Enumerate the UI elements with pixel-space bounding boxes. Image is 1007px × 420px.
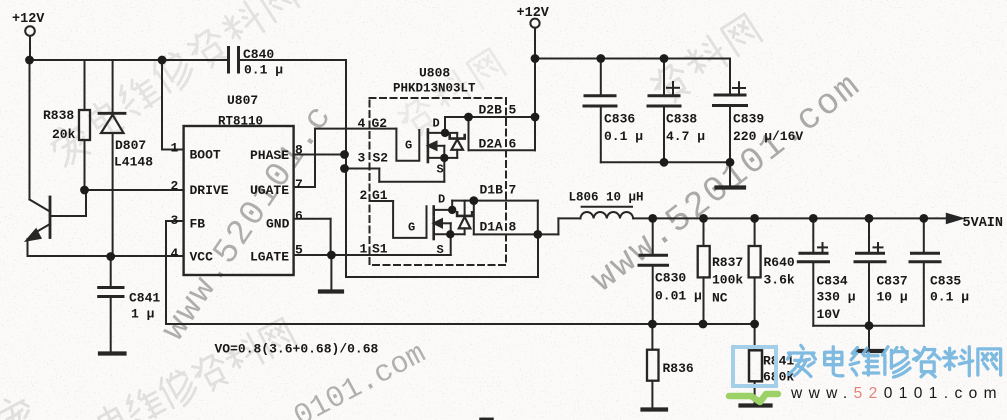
svg-text:20k: 20k [52, 127, 76, 142]
svg-text:1: 1 [171, 141, 179, 156]
wire D2A run and tie [469, 117, 536, 150]
svg-text:D2A: D2A [479, 137, 503, 152]
svg-text:RT8110: RT8110 [218, 115, 263, 129]
node +12V rail2 [531, 54, 540, 63]
svg-text:PHKD13N03LT: PHKD13N03LT [393, 82, 476, 96]
node lower D stub [448, 206, 456, 214]
svg-text:3.6k: 3.6k [764, 273, 795, 288]
node C836 tap [596, 54, 605, 63]
resistor R838 [79, 110, 90, 140]
node C839 bottom [726, 158, 735, 167]
wire C840 right drop to PHASE [345, 60, 347, 277]
svg-text:8: 8 [295, 143, 303, 158]
diode body lower [457, 201, 472, 235]
svg-text:R640: R640 [764, 255, 795, 270]
svg-text:+12V: +12V [12, 12, 45, 27]
svg-text:5: 5 [295, 243, 303, 258]
svg-text:4: 4 [358, 116, 366, 131]
transistor Q2 upper MOSFET source stub [428, 157, 457, 159]
svg-text:1 μ: 1 μ [131, 307, 155, 322]
node L806 out [648, 214, 657, 223]
svg-text:R838: R838 [43, 108, 74, 123]
node D2 +12V tie [531, 113, 540, 122]
wire output rail 5V [633, 217, 948, 219]
svg-text:330 μ: 330 μ [817, 290, 856, 305]
svg-text:D2B: D2B [479, 103, 503, 118]
transistor Q2 upper MOSFET channel [427, 130, 430, 163]
diode body upper [450, 133, 465, 158]
node C838 tap [660, 54, 669, 63]
wire D2B run [469, 116, 536, 118]
svg-text:GND: GND [266, 217, 290, 232]
node S2 tie [340, 164, 349, 173]
capacitor C840 [229, 48, 347, 73]
watermark tile top-middle: 修资料网 partial [396, 49, 506, 140]
node C837 tap [865, 214, 874, 223]
svg-text:3: 3 [358, 151, 366, 166]
transistor Q2 upper MOSFET arrow [428, 142, 444, 158]
node D1B branch [469, 196, 478, 205]
ground under output caps [858, 326, 883, 351]
node D1A/phase [533, 230, 542, 239]
svg-text:0.1 μ: 0.1 μ [930, 290, 969, 305]
transistor Q1 lower MOSFET source stub [434, 233, 465, 235]
svg-text:D1B: D1B [480, 183, 504, 198]
transistor Q (PNP) [27, 60, 51, 256]
svg-text:7: 7 [509, 183, 517, 198]
ground under C841 [100, 351, 125, 355]
resistor R836 [647, 324, 659, 408]
svg-text:8: 8 [509, 220, 517, 235]
svg-text:4.7 μ: 4.7 μ [666, 129, 705, 144]
svg-text:C838: C838 [666, 112, 697, 127]
svg-text:2: 2 [360, 188, 368, 203]
watermark tile upper-left: 家电维修资料网 diagonal [45, 0, 298, 169]
node 5VAIN arrow [947, 214, 962, 223]
node lower S branch [446, 230, 454, 238]
node DRIVE junction [80, 186, 89, 195]
svg-text:220 μ/16V: 220 μ/16V [733, 129, 803, 144]
wire phase bottom loop [346, 234, 538, 277]
wire FB bottom run [166, 323, 755, 325]
logo chinese 家 [787, 345, 815, 376]
node R640 tap [750, 214, 759, 223]
capacitor C830 [639, 218, 668, 324]
+12V terminal left [25, 26, 35, 60]
op-amp U807 RT8110 box [184, 126, 294, 275]
node C834 tap [809, 214, 818, 223]
svg-text:U807: U807 [227, 93, 258, 108]
transistor U808 dashed package box [370, 98, 507, 265]
node C838 bottom [660, 158, 669, 167]
wire S2 route [345, 158, 445, 182]
wire PHASE pin8 [294, 154, 345, 156]
svg-text:NC: NC [712, 291, 728, 306]
logo chinese 资 [913, 347, 940, 376]
svg-text:1: 1 [360, 242, 368, 257]
svg-text:VCC: VCC [190, 250, 214, 265]
node R837 bottom [699, 320, 708, 329]
svg-text:0.1 μ: 0.1 μ [604, 129, 643, 144]
svg-text:BOOT: BOOT [190, 148, 221, 163]
wire phase to inductor [538, 218, 581, 234]
resistor R837 [698, 218, 710, 324]
node upper S branch [440, 154, 448, 162]
svg-text:10 μ: 10 μ [877, 290, 908, 305]
wire caps bottom rail [601, 161, 730, 163]
logo book box [733, 347, 776, 386]
wire UGATE pin7 to G2 [294, 129, 397, 187]
svg-text:5VAIN: 5VAIN [963, 216, 1004, 231]
svg-text:L4148: L4148 [114, 155, 153, 170]
capacitor C835 [910, 218, 940, 325]
svg-text:S1: S1 [372, 242, 388, 257]
svg-text:R836: R836 [663, 361, 694, 376]
svg-text:3: 3 [171, 213, 179, 228]
wire D1A run [474, 201, 538, 235]
svg-text:100k: 100k [712, 273, 743, 288]
svg-text:S: S [437, 163, 444, 177]
node R640/R841 [750, 320, 759, 329]
svg-text:G1: G1 [372, 188, 388, 203]
svg-text:C840: C840 [243, 47, 274, 62]
svg-text:C830: C830 [655, 271, 686, 286]
wire BOOT drop [162, 60, 184, 150]
wire VCC pin4 [28, 255, 184, 257]
logo chinese 电 [825, 347, 843, 376]
wire R838 top lead [84, 60, 86, 110]
svg-text:FB: FB [190, 217, 206, 232]
wire LGATE pin5 and S1 run [294, 234, 451, 255]
svg-text:S2: S2 [373, 151, 389, 166]
node LGATE/GND tie [327, 251, 336, 260]
resistor R841 [749, 324, 762, 403]
node C835 tap [919, 214, 928, 223]
capacitor C841 [99, 256, 123, 352]
svg-text:7: 7 [295, 177, 303, 192]
node D2B branch [464, 113, 473, 122]
svg-text:R837: R837 [712, 255, 743, 270]
svg-text:+12V: +12V [517, 6, 550, 21]
logo chinese 网 [978, 349, 1001, 375]
svg-text:4: 4 [171, 246, 179, 261]
node caps gnd [865, 321, 874, 330]
svg-text:C835: C835 [930, 274, 961, 289]
node upper D branch [441, 129, 449, 137]
watermark tile bottom-left: 维修资料网 [0, 318, 296, 420]
svg-text:G2: G2 [372, 116, 388, 131]
wire output caps bottom rail [813, 325, 924, 327]
transistor Q1 lower MOSFET gate [370, 201, 427, 238]
wire R838 bottom lead [84, 140, 86, 190]
svg-text:6: 6 [295, 209, 303, 224]
capacitor C838 [648, 59, 680, 163]
ground under R836 [643, 407, 667, 411]
svg-text:0.1 μ: 0.1 μ [244, 63, 283, 78]
wire +12V rail 2 [535, 59, 730, 96]
svg-text:DRIVE: DRIVE [190, 183, 229, 198]
node R837 tap [699, 214, 708, 223]
ground under R841 [741, 403, 771, 407]
svg-text:VO=0.8(3.6+0.68)/0.68: VO=0.8(3.6+0.68)/0.68 [215, 342, 379, 357]
capacitor C837 [855, 218, 885, 325]
svg-text:D: D [433, 117, 440, 131]
bottom edge blob [481, 418, 492, 420]
logo watermark bottom right [729, 345, 1003, 402]
wire DRIVE pin2 [85, 189, 184, 191]
diode D807 L4148 [99, 60, 125, 257]
inductor L806 [580, 207, 633, 219]
svg-text:C841: C841 [129, 291, 160, 306]
svg-text:www.520101.com: www.520101.com [790, 385, 1003, 402]
svg-text:D807: D807 [115, 138, 146, 153]
node BOOT drop [158, 56, 167, 65]
node +12V left junction [25, 56, 34, 65]
watermark tile top-right: 网 [648, 14, 762, 107]
svg-text:U808: U808 [419, 66, 450, 81]
transistor Q1 lower MOSFET channel [432, 207, 435, 240]
node PHASE tie [340, 150, 349, 159]
wire FB pin3 [166, 221, 184, 324]
svg-text:S: S [437, 243, 444, 257]
svg-text:PHASE: PHASE [250, 148, 289, 163]
resistor R640 [749, 218, 761, 324]
svg-text:C839: C839 [733, 112, 764, 127]
logo chinese 料 [943, 347, 972, 376]
transistor Q2 upper MOSFET drain stub [428, 117, 469, 133]
node C830 bottom [648, 320, 657, 329]
svg-text:C837: C837 [877, 274, 908, 289]
svg-text:G: G [405, 139, 412, 153]
svg-text:G: G [408, 221, 415, 235]
wire top rail left [30, 59, 229, 61]
svg-text:10V: 10V [817, 307, 841, 322]
logo chinese 修 [882, 347, 910, 377]
+12V terminal middle [530, 19, 539, 117]
wire D1B run [474, 201, 538, 235]
svg-text:2: 2 [171, 179, 179, 194]
wire base to DRIVE junction [50, 190, 86, 216]
svg-text:C836: C836 [604, 112, 635, 127]
capacitor C834 [798, 218, 828, 325]
transistor Q1 lower MOSFET drain stub [434, 201, 474, 210]
svg-text:LGATE: LGATE [250, 250, 289, 265]
wire GND pin6 [294, 219, 331, 255]
capacitor C836 [584, 59, 616, 163]
svg-text:D: D [438, 193, 445, 207]
svg-text:0.01 μ: 0.01 μ [655, 289, 702, 304]
svg-text:L806 10 μH: L806 10 μH [569, 191, 644, 205]
svg-text:6: 6 [509, 137, 517, 152]
ground under C839 [717, 162, 745, 187]
logo chinese 维 [850, 347, 879, 375]
transistor Q1 lower MOSFET arrow [434, 219, 451, 234]
svg-text:5: 5 [509, 103, 517, 118]
svg-text:D1A: D1A [480, 220, 504, 235]
transistor Q2 upper MOSFET gate [396, 129, 419, 161]
node VCC/C841 [106, 252, 115, 261]
ground under pin5/6 junction [320, 255, 342, 292]
svg-text:UGATE: UGATE [250, 183, 289, 198]
logo green swoosh [729, 394, 778, 402]
svg-text:C834: C834 [817, 274, 848, 289]
capacitor C839 [714, 82, 747, 162]
